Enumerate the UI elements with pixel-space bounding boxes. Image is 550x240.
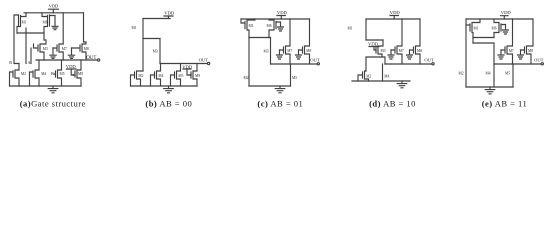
VDD tie for M3 gate (panel d) <box>369 47 379 51</box>
OUT node circle (panel b) <box>207 62 209 64</box>
wire from internal node down (panel a) <box>25 28 27 64</box>
svg-text:VDD: VDD <box>277 10 288 15</box>
transistor M7 pmos (panel d) <box>391 19 404 64</box>
svg-text:OUT: OUT <box>424 57 434 62</box>
ground on gate of M7 (panel d) <box>388 50 394 59</box>
transistor M1 pmos (panel e) <box>466 19 480 38</box>
svg-text:M1: M1 <box>474 27 479 31</box>
svg-text:M5: M5 <box>292 76 297 80</box>
transistor M9 nmos (panel b) <box>191 64 200 87</box>
OUT node wire (panel a) <box>36 59 98 61</box>
ground on gate of M7 (panel a) <box>50 48 56 58</box>
ground on gate of M6 (panel c) <box>276 22 284 31</box>
ground symbol bottom (panel c) <box>275 86 285 93</box>
internal node wire (panel c) <box>249 37 271 39</box>
VDD rail wire (panel a) <box>24 12 84 14</box>
node B input wire (panel a) <box>14 15 19 64</box>
svg-text:M2: M2 <box>244 76 249 80</box>
ground symbol bottom (panel e) <box>485 87 495 94</box>
transistor M2 nmos (panel a) <box>10 64 27 87</box>
OUT node wire (panel e) <box>494 63 541 65</box>
svg-text:(b) AB = 00: (b) AB = 00 <box>145 98 192 108</box>
transistor M1 pmos (panel c) <box>241 19 255 38</box>
svg-text:M5: M5 <box>178 74 183 78</box>
svg-text:M8: M8 <box>417 49 422 53</box>
OUT node circle (panel d) <box>432 63 434 65</box>
svg-text:M6: M6 <box>43 21 48 25</box>
transistor M7 pmos (panel e) <box>501 19 514 64</box>
svg-text:VDD: VDD <box>49 3 59 8</box>
svg-text:VDD: VDD <box>182 64 193 69</box>
svg-text:M8: M8 <box>528 49 533 53</box>
OUT node wire (panel c) <box>271 63 318 65</box>
svg-text:M2: M2 <box>459 72 464 76</box>
transistor M8 pmos (panel e) <box>521 19 534 64</box>
internal node wire (panel e) <box>473 37 494 39</box>
transistor M5 nmos (panel a) <box>54 60 64 86</box>
wire M3 conducting (panel b) <box>159 39 161 64</box>
transistor M1 pmos (panel a) <box>17 13 27 33</box>
wire internal node (panel d) <box>366 39 383 41</box>
ground on gate of M6 (panel a) <box>50 16 59 30</box>
svg-text:VDD: VDD <box>368 42 379 47</box>
transistor M4 nmos (panel b) <box>151 64 164 87</box>
svg-text:M1: M1 <box>249 24 254 28</box>
svg-text:M1: M1 <box>348 27 353 31</box>
svg-text:M8: M8 <box>306 49 311 53</box>
transistor M7 pmos (panel a) <box>53 13 67 60</box>
svg-text:VDD: VDD <box>164 11 175 16</box>
wire internal node down (panel e) <box>472 38 474 44</box>
VDD tie for M9 gate (panel b) <box>183 69 191 75</box>
svg-text:M4: M4 <box>158 74 163 78</box>
svg-text:M5: M5 <box>505 72 510 76</box>
svg-text:M7: M7 <box>399 49 404 53</box>
svg-text:B: B <box>9 60 12 65</box>
ground symbol bottom (panel d) <box>397 81 407 88</box>
svg-text:M4: M4 <box>41 72 46 76</box>
svg-text:(c) AB = 01: (c) AB = 01 <box>257 98 303 108</box>
svg-text:M5: M5 <box>60 72 65 76</box>
internal node wire 2 (panel e) <box>473 43 494 64</box>
VDD rail wire (panel c) <box>241 18 310 20</box>
svg-text:VDD: VDD <box>66 64 77 69</box>
svg-text:M2: M2 <box>138 74 143 78</box>
transistor M8 pmos (panel c) <box>299 19 312 64</box>
svg-text:VDD: VDD <box>390 10 401 15</box>
svg-text:M6: M6 <box>267 24 272 28</box>
ground on gate of M8 (panel e) <box>518 50 524 59</box>
junction dot on M9 gate (panel a) <box>73 74 75 76</box>
transistor M6 pmos (panel a) <box>42 13 50 33</box>
junction dot on M9 gate (panel b) <box>189 74 191 76</box>
wire M1 conducting (panel d) <box>365 19 367 40</box>
svg-text:M1: M1 <box>22 21 27 25</box>
ground on gate of M7 (panel c) <box>277 50 283 59</box>
svg-text:(d) AB = 10: (d) AB = 10 <box>369 98 416 108</box>
VDD supply symbol (panel d) <box>390 16 399 20</box>
OUT node circle (panel a) <box>97 59 99 61</box>
OUT node circle (panel c) <box>317 63 319 65</box>
ground rail wire (panel d) <box>352 80 410 82</box>
VDD supply symbol (panel e) <box>501 16 509 19</box>
svg-text:M7: M7 <box>287 49 292 53</box>
svg-text:B: B <box>51 71 54 76</box>
ground rail wire (panel b) <box>131 85 198 87</box>
svg-text:M1: M1 <box>132 26 137 30</box>
svg-text:M3: M3 <box>264 50 269 54</box>
VDD tie for M9 gate (panel a) <box>67 69 77 75</box>
ground on gate of M8 (panel c) <box>296 50 302 59</box>
wire M4 conducting (panel e) <box>493 64 495 87</box>
transistor M2 nmos (panel b) <box>131 71 144 86</box>
svg-text:VDD: VDD <box>501 10 512 15</box>
wire M4 conducting (panel d) <box>382 64 384 81</box>
wire M2 conducting tall (panel e) <box>465 25 467 87</box>
svg-text:(a)Gate structure: (a)Gate structure <box>20 98 86 108</box>
svg-text:M9: M9 <box>195 74 200 78</box>
svg-text:A: A <box>28 60 31 65</box>
VDD supply symbol (panel b) <box>164 16 173 19</box>
svg-text:M7: M7 <box>509 49 514 53</box>
VDD rail wire (panel e) <box>466 18 533 20</box>
OUT node circle (panel e) <box>541 63 543 65</box>
ground on gate of M8 (panel a) <box>68 48 74 58</box>
OUT node wire (panel d) <box>385 63 432 65</box>
ground rail wire (panel e) <box>466 86 513 88</box>
branch wire to M3 (panel b) <box>143 38 160 40</box>
VDD supply symbol (panel c) <box>277 16 286 20</box>
transistor M6 pmos (panel e) <box>492 19 502 38</box>
transistor M2 nmos (panel d) <box>358 71 371 81</box>
transistor M4 nmos (panel a) <box>30 60 47 86</box>
transistor M3 pmos (panel d) <box>376 40 386 57</box>
ground rail wire (panel a) <box>10 85 82 87</box>
svg-text:M8: M8 <box>84 47 89 51</box>
node A input wire (panel a) <box>30 48 32 64</box>
svg-text:M3: M3 <box>153 50 158 54</box>
ground symbol bottom (panel b) <box>164 86 174 93</box>
transistor M6 pmos (panel c) <box>267 19 277 38</box>
transistor M5 nmos (panel b) <box>171 64 184 87</box>
svg-text:M9: M9 <box>78 72 83 76</box>
ground rail wire (panel c) <box>249 85 291 87</box>
wire M3 conducting (panel c) <box>270 38 272 65</box>
svg-text:M4: M4 <box>384 74 389 78</box>
svg-text:M4: M4 <box>486 72 491 76</box>
VDD supply symbol (panel a) <box>49 9 59 13</box>
svg-text:M2: M2 <box>21 72 26 76</box>
svg-text:OUT: OUT <box>310 57 320 62</box>
svg-text:M3: M3 <box>381 49 386 53</box>
transistor M7 pmos (panel c) <box>280 19 293 64</box>
svg-text:M3: M3 <box>43 47 48 51</box>
wire M5 conducting (panel c) <box>290 64 292 86</box>
VDD rail wire (panel b) <box>143 18 170 20</box>
wire M5 conducting (panel e) <box>512 64 514 87</box>
wire M3 source to M2 drain (panel d) <box>366 57 385 71</box>
internal node wire (panel a) <box>17 32 44 34</box>
svg-text:OUT: OUT <box>199 57 209 62</box>
transistor M9 nmos (panel a) <box>75 60 83 86</box>
svg-text:M6: M6 <box>492 27 497 31</box>
svg-text:M7: M7 <box>62 47 67 51</box>
ground symbol bottom (panel a) <box>48 86 58 93</box>
svg-text:M2: M2 <box>366 74 371 78</box>
wire M1 conducting (panel b) <box>142 19 144 72</box>
OUT node wire (panel b) <box>160 63 208 65</box>
VDD rail wire (panel d) <box>366 18 420 20</box>
svg-text:(e) AB = 11: (e) AB = 11 <box>482 98 528 108</box>
svg-text:OUT: OUT <box>534 57 544 62</box>
wire M2 conducting tall (panel c) <box>248 38 250 87</box>
ground on gate of M8 (panel d) <box>407 50 413 59</box>
ground on gate of M7 (panel e) <box>498 50 504 59</box>
ground on gate of M6 (panel e) <box>501 25 509 35</box>
transistor M3 pmos (panel a) <box>34 33 48 60</box>
svg-text:OUT: OUT <box>86 56 96 61</box>
transistor M8 pmos (panel d) <box>410 19 423 64</box>
transistor M8 pmos (panel a) <box>72 13 89 60</box>
